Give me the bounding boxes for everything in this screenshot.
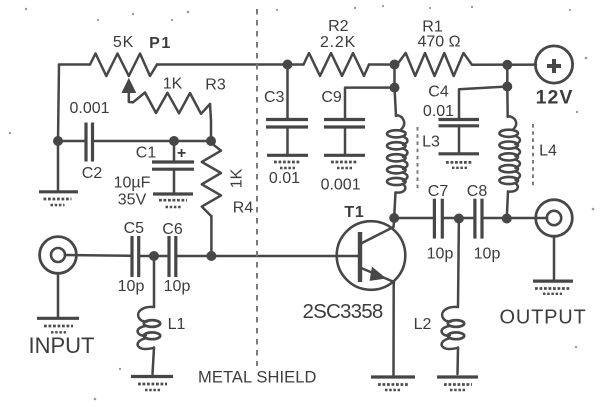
wire L3 rail down (393, 65, 396, 88)
wire C7 to C8 (442, 217, 475, 220)
wire L2 to ground (456, 348, 459, 375)
shield boundary dashed line (256, 9, 258, 366)
svg-text:+: + (177, 145, 186, 162)
wire L1 stem (153, 256, 156, 307)
svg-text:0.01: 0.01 (269, 170, 300, 187)
svg-text:C7: C7 (428, 183, 449, 200)
node R4 bottom junction (206, 251, 216, 261)
svg-text:INPUT: INPUT (29, 333, 95, 358)
wire L2 stem (457, 219, 460, 308)
wire pot to C3 node (157, 63, 304, 66)
resistor R4 (202, 143, 221, 216)
wire L1 to ground (153, 348, 155, 375)
core line L4 (532, 124, 534, 188)
capacitor C4 (439, 120, 480, 153)
inductor L3 (387, 115, 408, 193)
inductor L4 (499, 116, 520, 192)
svg-text:R2: R2 (328, 18, 349, 35)
wire top-left rail (59, 63, 90, 66)
wire R3 right end down to node (210, 104, 211, 141)
wire node to C2 (58, 140, 86, 143)
svg-text:C2: C2 (82, 165, 103, 182)
svg-text:L4: L4 (539, 143, 557, 160)
inductor L1 (138, 307, 161, 349)
node collector (389, 213, 399, 223)
svg-text:470 Ω: 470 Ω (417, 34, 460, 51)
capacitor C2 (86, 123, 93, 162)
node C3 top (283, 60, 293, 70)
capacitor C8 (475, 199, 482, 239)
wire C8 to output jack (482, 217, 547, 220)
svg-text:2.2K: 2.2K (320, 34, 356, 51)
node L2 junction (454, 214, 464, 224)
capacitor C1 (152, 141, 194, 193)
wire L4 to output node (507, 192, 508, 218)
node C1 junction (169, 136, 179, 146)
core line L3 (417, 127, 419, 192)
wire node to ground (57, 141, 60, 191)
wire L4 stem top (506, 87, 509, 118)
node L4 bottom junction (502, 214, 512, 224)
ground under L1 (131, 377, 173, 391)
wire jack to ground (57, 273, 60, 317)
wire left rail vertical (58, 65, 59, 142)
wire output jack to ground (553, 236, 556, 280)
svg-text:C5: C5 (124, 220, 145, 237)
wire C4 rail down (506, 65, 509, 87)
svg-text:10p: 10p (118, 278, 145, 295)
svg-text:C6: C6 (162, 221, 183, 238)
svg-text:C9: C9 (321, 89, 342, 106)
wire C2 to R4 node (93, 140, 212, 143)
svg-text:OUTPUT: OUTPUT (499, 307, 586, 329)
svg-text:1K: 1K (163, 76, 183, 93)
ground under L2 (437, 377, 478, 390)
inductor L2 (442, 307, 465, 349)
svg-text:0.001: 0.001 (69, 100, 109, 117)
svg-text:2SC3358: 2SC3358 (303, 300, 383, 323)
transistor T1 (337, 220, 406, 290)
wire C6 to base (176, 255, 359, 258)
ground under input jack (37, 318, 79, 332)
resistor R2 (304, 53, 370, 76)
svg-text:0.01: 0.01 (423, 103, 454, 120)
node R4 top (206, 136, 216, 146)
wire C9 branch (345, 88, 395, 119)
svg-text:12V: 12V (536, 87, 574, 109)
node C4 rail top (502, 60, 512, 70)
ground left (39, 192, 78, 205)
svg-text:1K: 1K (229, 168, 246, 188)
ground under C9 (324, 155, 365, 168)
svg-text:R3: R3 (205, 77, 226, 94)
wire emitter to ground (392, 286, 395, 375)
wire R4 to input line (210, 216, 213, 256)
svg-text:10p: 10p (427, 246, 454, 263)
svg-text:C3: C3 (264, 89, 285, 106)
node L1 junction (149, 251, 159, 261)
capacitor C3 (266, 120, 308, 155)
wire C4 branch (459, 87, 507, 120)
wire jack to C5 (65, 254, 132, 257)
svg-text:C4: C4 (428, 84, 449, 101)
wire collector to C7 (394, 217, 434, 220)
capacitor C7 (434, 199, 442, 239)
wire L3 to collector node (394, 193, 395, 218)
ground under emitter (371, 377, 415, 390)
ground under output jack (533, 281, 573, 294)
wire R1 to 12V (472, 63, 536, 66)
node C4 junction (502, 82, 512, 92)
capacitor C6 (169, 236, 176, 277)
svg-text:35V: 35V (118, 192, 147, 209)
svg-text:P1: P1 (149, 35, 172, 52)
svg-text:T1: T1 (344, 204, 364, 221)
svg-text:L1: L1 (168, 316, 186, 333)
svg-text:METAL SHIELD: METAL SHIELD (198, 369, 317, 387)
ground under C3 (267, 155, 308, 168)
svg-text:10p: 10p (474, 246, 501, 263)
node left C2 junction (53, 136, 63, 146)
node C9 junction (390, 83, 400, 93)
wire C5 to C6 (139, 255, 169, 258)
power source 12V (535, 46, 572, 83)
svg-text:L2: L2 (414, 316, 432, 333)
svg-text:R4: R4 (233, 200, 254, 217)
svg-text:0.001: 0.001 (321, 177, 361, 194)
ground under C1 (153, 194, 193, 207)
connector INPUT jack (40, 237, 77, 274)
wire L3 stem top (395, 88, 397, 116)
wire R2 to R1 (369, 63, 397, 66)
ground under C4 (439, 154, 480, 168)
capacitor C9 (324, 120, 365, 155)
resistor R3 (133, 93, 210, 114)
svg-text:10p: 10p (164, 278, 191, 295)
resistor R1 (397, 53, 472, 76)
svg-text:L3: L3 (422, 134, 440, 151)
wire C3 stem (286, 65, 289, 120)
svg-text:C8: C8 (467, 183, 488, 200)
svg-text:C1: C1 (136, 145, 157, 162)
node L3 rail top (390, 60, 400, 70)
svg-text:10µF: 10µF (114, 175, 151, 192)
svg-text:5K: 5K (113, 34, 134, 51)
potentiometer P1 (90, 54, 157, 103)
connector OUTPUT jack (536, 200, 573, 237)
capacitor C5 (132, 236, 139, 277)
